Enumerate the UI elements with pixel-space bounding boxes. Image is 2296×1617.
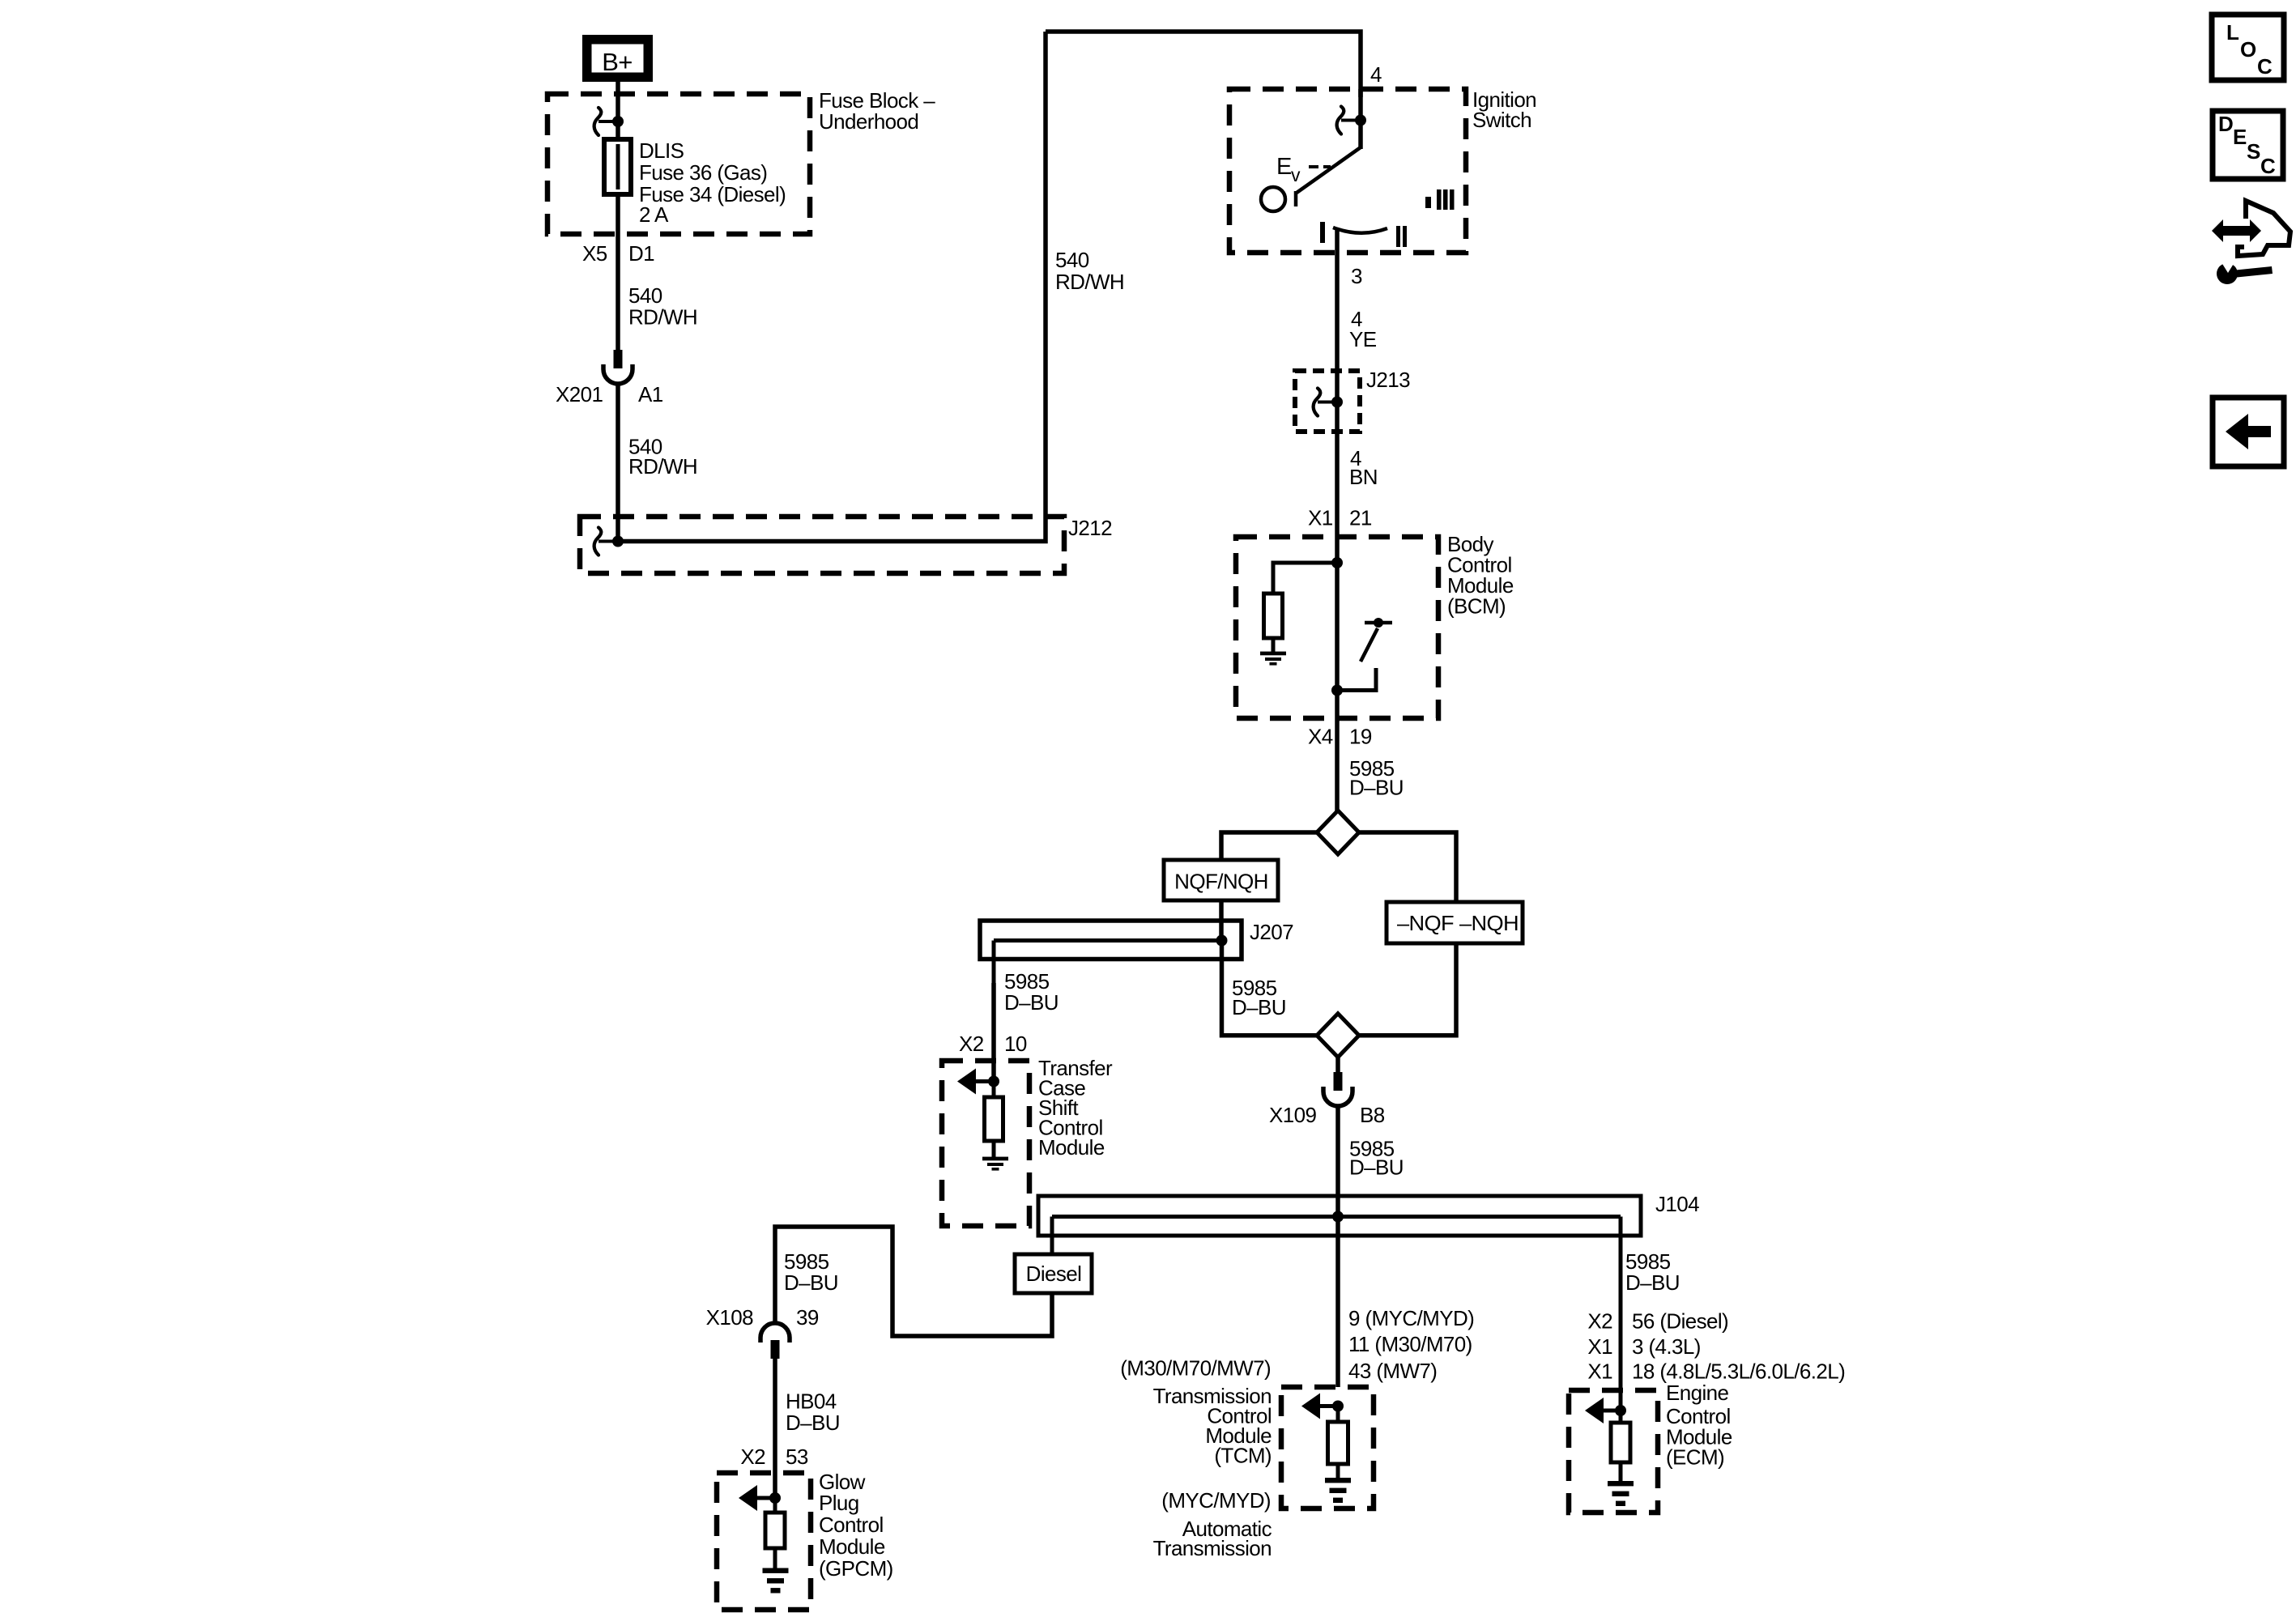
ground ECM xyxy=(1608,1481,1634,1486)
wire bottom join horizontal left xyxy=(1222,941,1318,1036)
svg-text:Fuse 36 (Gas): Fuse 36 (Gas) xyxy=(639,160,767,185)
svg-text:X201: X201 xyxy=(556,382,603,406)
svg-text:(TCM): (TCM) xyxy=(1214,1444,1272,1468)
splice J213 dashed box xyxy=(1295,371,1360,432)
svg-text:D–BU: D–BU xyxy=(784,1270,838,1295)
svg-text:2 A: 2 A xyxy=(639,202,669,227)
svg-text:X4: X4 xyxy=(1308,725,1333,749)
connector X201 pin A1 xyxy=(614,350,623,368)
svg-text:YE: YE xyxy=(1349,327,1377,351)
node J213 splice xyxy=(1331,397,1343,408)
arrow terminal ECM xyxy=(1585,1398,1604,1423)
svg-text:(ECM): (ECM) xyxy=(1666,1445,1724,1470)
node BCM bottom junction xyxy=(1331,685,1343,696)
transfer case shift control module dashed box xyxy=(942,1061,1029,1226)
wire NQF/NQH to J207 xyxy=(1219,900,1224,940)
transmission control module (TCM) dashed box xyxy=(1281,1387,1374,1508)
svg-text:Plug: Plug xyxy=(819,1491,859,1515)
svg-text:O: O xyxy=(2240,37,2256,62)
fuse block underhood dashed box xyxy=(547,94,810,234)
svg-text:X2: X2 xyxy=(1587,1309,1612,1334)
position marks II xyxy=(1396,226,1400,247)
svg-text:D–BU: D–BU xyxy=(1349,1155,1404,1180)
svg-text:Module: Module xyxy=(1038,1135,1105,1160)
ground transfer case xyxy=(982,1157,1008,1161)
engine control module (ECM) dashed box xyxy=(1569,1390,1658,1513)
icon back arrow button xyxy=(2213,398,2284,466)
icon DESC button xyxy=(2213,111,2283,179)
rotary arc xyxy=(1333,228,1387,233)
svg-text:B+: B+ xyxy=(602,48,633,76)
body control module (BCM) dashed box xyxy=(1236,537,1438,718)
svg-text:J207: J207 xyxy=(1250,920,1293,944)
resistor transfer case xyxy=(992,1082,996,1099)
svg-text:D1: D1 xyxy=(628,241,654,266)
svg-text:Switch: Switch xyxy=(1472,108,1531,132)
node TCM input xyxy=(1332,1401,1344,1412)
svg-text:(BCM): (BCM) xyxy=(1447,594,1506,619)
svg-text:21: 21 xyxy=(1349,506,1372,530)
position mark I xyxy=(1320,222,1325,243)
node BCM top junction xyxy=(1331,557,1343,568)
wire bottom join horizontal right xyxy=(1358,943,1456,1036)
svg-text:56 (Diesel): 56 (Diesel) xyxy=(1632,1309,1728,1334)
svg-text:Engine: Engine xyxy=(1666,1381,1728,1405)
svg-text:RD/WH: RD/WH xyxy=(628,305,697,330)
position marks III xyxy=(1425,197,1431,208)
arrow terminal TCM xyxy=(1301,1394,1320,1419)
svg-text:X1: X1 xyxy=(1308,506,1333,530)
svg-text:540: 540 xyxy=(628,283,662,308)
clip terminal in J212 xyxy=(594,528,602,555)
wire into transfer case module xyxy=(991,983,996,1082)
svg-text:9 (MYC/MYD): 9 (MYC/MYD) xyxy=(1348,1306,1474,1330)
svg-text:4: 4 xyxy=(1370,62,1382,87)
wire X109 to J104 xyxy=(1335,1106,1340,1216)
svg-text:NQF/NQH: NQF/NQH xyxy=(1174,870,1268,894)
svg-text:RD/WH: RD/WH xyxy=(1055,270,1124,294)
glow plug control module (GPCM) dashed box xyxy=(717,1473,811,1610)
resistor ECM xyxy=(1619,1411,1623,1423)
node fuse block entry xyxy=(612,116,624,127)
wire X201 to J212 xyxy=(616,384,620,541)
wire J104 right drop xyxy=(1619,1217,1623,1236)
svg-text:Diesel: Diesel xyxy=(1026,1262,1082,1286)
wire diamond to X109 xyxy=(1335,1057,1340,1073)
svg-text:D–BU: D–BU xyxy=(786,1411,840,1435)
svg-text:39: 39 xyxy=(796,1305,819,1330)
icon LOC button xyxy=(2212,15,2284,80)
wire into switch xyxy=(1358,89,1363,149)
icon harness outline xyxy=(2238,201,2290,256)
wire J104 left drop xyxy=(1050,1217,1054,1255)
node J207 splice xyxy=(1216,935,1228,947)
wire BCM to diamond xyxy=(1335,718,1340,811)
svg-text:Module: Module xyxy=(819,1534,885,1559)
wire pin 3 down from switch xyxy=(1335,229,1340,537)
clip terminal at fuse block entry xyxy=(594,108,602,135)
splice J212 dashed box xyxy=(580,517,1064,573)
svg-text:X109: X109 xyxy=(1269,1103,1316,1127)
wire BCM internal vertical xyxy=(1335,537,1340,718)
svg-text:X2: X2 xyxy=(959,1032,984,1056)
svg-text:Underhood: Underhood xyxy=(819,109,918,134)
ground BCM internal xyxy=(1260,652,1286,656)
svg-text:HB04: HB04 xyxy=(786,1389,837,1414)
connector X109 pin B8 xyxy=(1334,1072,1343,1091)
node transfer case input xyxy=(988,1076,999,1087)
svg-text:43 (MW7): 43 (MW7) xyxy=(1348,1359,1437,1383)
svg-text:D–BU: D–BU xyxy=(1349,776,1404,800)
svg-text:X5: X5 xyxy=(582,241,607,266)
svg-text:53: 53 xyxy=(786,1445,808,1469)
node ECM input xyxy=(1615,1405,1626,1416)
arrow terminal GPCM xyxy=(739,1485,757,1511)
svg-text:18 (4.8L/5.3L/6.0L/6.2L): 18 (4.8L/5.3L/6.0L/6.2L) xyxy=(1632,1360,1845,1384)
wire J104 to ECM xyxy=(1619,1236,1623,1411)
wire B+ to fuse block xyxy=(616,82,620,119)
splice pack J104 xyxy=(1038,1196,1641,1236)
svg-text:J104: J104 xyxy=(1655,1192,1699,1216)
icon harness double arrow xyxy=(2212,219,2261,242)
svg-text:J213: J213 xyxy=(1366,368,1410,392)
svg-text:D–BU: D–BU xyxy=(1232,995,1286,1019)
fuse DLIS Fuse 36 (Gas) / Fuse 34 (Diesel) 2 A xyxy=(616,139,620,194)
clip terminal in J213 xyxy=(1314,389,1321,416)
svg-text:C: C xyxy=(2260,154,2276,178)
svg-text:S: S xyxy=(2247,139,2260,164)
svg-text:10: 10 xyxy=(1004,1032,1027,1056)
svg-text:3: 3 xyxy=(1351,264,1362,288)
node top diamond xyxy=(1317,811,1359,854)
switch BCM internal xyxy=(1374,618,1383,628)
svg-text:X1: X1 xyxy=(1587,1360,1612,1384)
node switch input xyxy=(1355,115,1366,126)
svg-text:B8: B8 xyxy=(1360,1103,1385,1127)
clip terminal at switch input xyxy=(1337,107,1344,134)
svg-text:X2: X2 xyxy=(740,1445,765,1469)
icon wrench xyxy=(2217,263,2238,284)
connector X108 pin 39 xyxy=(760,1323,790,1343)
wire J212 horizontal to riser xyxy=(618,32,1046,542)
svg-text:(MYC/MYD): (MYC/MYD) xyxy=(1161,1488,1271,1513)
node bottom diamond xyxy=(1317,1014,1359,1057)
wire J104 center through xyxy=(1335,1217,1340,1388)
svg-text:D: D xyxy=(2218,112,2234,136)
svg-text:(GPCM): (GPCM) xyxy=(819,1556,893,1581)
svg-text:X1: X1 xyxy=(1587,1334,1612,1359)
svg-text:3 (4.3L): 3 (4.3L) xyxy=(1632,1334,1701,1359)
svg-text:E: E xyxy=(1276,154,1292,180)
svg-text:540: 540 xyxy=(1055,248,1089,272)
ground GPCM xyxy=(763,1568,789,1573)
splice pack J207 xyxy=(980,921,1242,960)
svg-text:E: E xyxy=(2233,125,2247,149)
resistor GPCM xyxy=(773,1498,777,1513)
svg-text:X108: X108 xyxy=(706,1305,753,1330)
wire to fuse xyxy=(616,121,620,142)
svg-text:v: v xyxy=(1291,164,1301,185)
svg-text:L: L xyxy=(2226,20,2239,45)
switch pivot circle xyxy=(1261,187,1285,211)
option box -NQF -NQH xyxy=(1387,902,1523,943)
wire split horizontal left xyxy=(1221,832,1318,860)
svg-text:RD/WH: RD/WH xyxy=(628,454,697,479)
svg-text:19: 19 xyxy=(1349,725,1372,749)
node J212 splice xyxy=(612,536,624,547)
switch blade xyxy=(1297,147,1361,193)
arrow terminal transfer case xyxy=(957,1069,976,1095)
option box NQF/NQH xyxy=(1164,860,1278,900)
svg-text:Control: Control xyxy=(819,1513,884,1537)
resistor TCM xyxy=(1336,1406,1340,1423)
svg-text:D–BU: D–BU xyxy=(1004,990,1059,1015)
power symbol B+ xyxy=(582,35,653,82)
svg-text:(M30/M70/MW7): (M30/M70/MW7) xyxy=(1120,1356,1271,1381)
svg-text:BN: BN xyxy=(1349,465,1378,489)
ground TCM xyxy=(1325,1478,1351,1483)
node J104 splice xyxy=(1332,1211,1344,1223)
svg-text:D–BU: D–BU xyxy=(1625,1270,1680,1295)
svg-text:C: C xyxy=(2257,54,2273,79)
node GPCM input xyxy=(769,1492,781,1504)
svg-text:A1: A1 xyxy=(638,382,663,406)
svg-text:DLIS: DLIS xyxy=(639,138,684,163)
wire top horizontal to ignition switch xyxy=(1046,32,1361,97)
option box Diesel xyxy=(1015,1254,1092,1293)
resistor BCM pull-up xyxy=(1264,594,1283,638)
ignition switch dashed box xyxy=(1229,89,1466,253)
wire X108 to GPCM xyxy=(773,1358,777,1498)
wire fuse to X5 xyxy=(616,194,620,350)
svg-text:Transmission: Transmission xyxy=(1153,1536,1272,1560)
wire split horizontal right xyxy=(1358,832,1456,902)
svg-text:11 (M30/M70): 11 (M30/M70) xyxy=(1348,1332,1472,1356)
wire Diesel down and across xyxy=(775,1227,1052,1336)
wire to internal resistor xyxy=(1273,563,1337,595)
svg-text:–NQF –NQH: –NQF –NQH xyxy=(1397,911,1519,935)
svg-text:J212: J212 xyxy=(1068,516,1112,540)
